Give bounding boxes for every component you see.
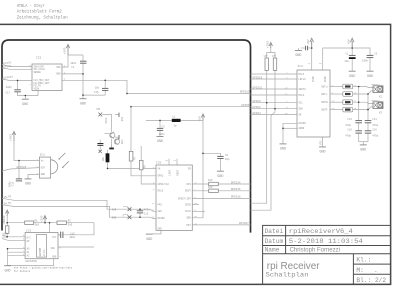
- svg-text:GPIO17: GPIO17: [239, 222, 249, 225]
- svg-text:C16: C16: [372, 128, 377, 131]
- svg-text:OUT: OUT: [41, 167, 46, 170]
- svg-text:GND: GND: [349, 75, 355, 79]
- svg-text:10p: 10p: [95, 87, 100, 90]
- svg-text:C12: C12: [12, 181, 15, 186]
- svg-text:DOUT: DOUT: [185, 190, 191, 193]
- svg-text:RCLK: RCLK: [299, 73, 305, 76]
- svg-text:GPIO26: GPIO26: [17, 166, 27, 169]
- svg-text:GND: GND: [25, 183, 31, 187]
- svg-text:.: .: [374, 267, 378, 274]
- svg-text:100n: 100n: [9, 181, 12, 188]
- svg-text:SPDIF/INT: SPDIF/INT: [178, 197, 191, 200]
- svg-text:1m: 1m: [174, 124, 178, 127]
- svg-text:LRCLK: LRCLK: [299, 78, 307, 81]
- svg-text:C11: C11: [144, 212, 149, 215]
- svg-text:24C64SN: 24C64SN: [25, 260, 37, 263]
- svg-text:100n: 100n: [69, 236, 76, 239]
- svg-text:LOUT: LOUT: [168, 169, 171, 175]
- svg-text:IC2: IC2: [36, 57, 41, 60]
- svg-text:GPIO19: GPIO19: [253, 76, 263, 79]
- svg-text:ROUT: ROUT: [176, 169, 179, 175]
- svg-text:C1: C1: [346, 53, 350, 56]
- svg-text:OUTL+: OUTL+: [321, 85, 329, 88]
- svg-text:for details: for details: [14, 270, 31, 273]
- svg-text:VDD: VDD: [56, 66, 61, 69]
- svg-text:100: 100: [208, 186, 213, 189]
- svg-text:100n: 100n: [70, 62, 77, 65]
- svg-text:Bl.: 2/2: Bl.: 2/2: [356, 277, 386, 284]
- svg-text:GPIO4: GPIO4: [253, 112, 261, 115]
- svg-text:470n: 470n: [144, 208, 151, 211]
- svg-text:470p: 470p: [345, 124, 352, 127]
- svg-text:+3V3: +3V3: [41, 215, 44, 222]
- svg-text:100n: 100n: [362, 59, 369, 62]
- svg-text:GPIO18: GPIO18: [231, 196, 241, 199]
- svg-text:MCLK: MCLK: [299, 94, 305, 97]
- svg-text:10u: 10u: [344, 60, 349, 63]
- svg-text:EEPROM: EEPROM: [39, 247, 42, 256]
- svg-text:Zeichnung, Schaltplan: Zeichnung, Schaltplan: [17, 15, 68, 21]
- svg-text:AIR: AIR: [112, 208, 117, 211]
- svg-text:IC5: IC5: [156, 161, 161, 164]
- svg-text:GND: GND: [146, 238, 152, 242]
- svg-text:C15: C15: [347, 128, 352, 131]
- svg-text:ADDR: ADDR: [299, 127, 305, 130]
- svg-text:Datei: Datei: [265, 228, 284, 235]
- svg-text:OUTR+: OUTR+: [321, 101, 329, 104]
- svg-text:GND: GND: [112, 216, 117, 219]
- svg-text:Christoph Fornezzi: Christoph Fornezzi: [290, 248, 340, 254]
- svg-text:C10: C10: [70, 232, 75, 235]
- svg-text:FM: FM: [97, 108, 101, 111]
- svg-text:+5V: +5V: [307, 39, 310, 44]
- svg-text:Datum: Datum: [265, 238, 284, 245]
- svg-text:SDA: SDA: [51, 247, 56, 250]
- svg-text:R9: R9: [144, 165, 147, 169]
- svg-text:K3: K3: [379, 111, 383, 114]
- svg-text:SCL: SCL: [299, 102, 304, 105]
- svg-text:C2: C2: [374, 53, 378, 56]
- svg-text:DFS: DFS: [186, 183, 191, 186]
- svg-text:GND: GND: [56, 73, 61, 76]
- svg-text:GND: GND: [4, 269, 10, 273]
- svg-text:GND: GND: [80, 102, 86, 106]
- svg-text:AUX: AUX: [158, 210, 163, 213]
- svg-text:10u: 10u: [102, 156, 105, 161]
- svg-text:Name: Name: [265, 247, 280, 254]
- svg-text:SDIO: SDIO: [185, 203, 191, 206]
- svg-text:+3V3: +3V3: [10, 134, 13, 141]
- svg-text:GPIO3: GPIO3: [253, 100, 261, 103]
- svg-text:Kl.:: Kl.:: [356, 257, 371, 264]
- svg-text:IC4: IC4: [298, 65, 303, 68]
- svg-text:GND: GND: [121, 139, 124, 144]
- svg-text:GND: GND: [319, 151, 325, 155]
- svg-text:TS6521S: TS6521S: [371, 99, 381, 102]
- svg-text:100n: 100n: [159, 133, 166, 136]
- svg-text:GND: GND: [217, 175, 223, 179]
- svg-text:470p: 470p: [372, 134, 379, 137]
- svg-text:C13: C13: [347, 118, 352, 121]
- svg-text:GPIO13: GPIO13: [240, 91, 250, 94]
- svg-text:C4: C4: [71, 66, 75, 69]
- svg-text:R2: R2: [68, 219, 72, 222]
- svg-text:100n: 100n: [6, 86, 13, 89]
- svg-text:AT24C: AT24C: [43, 249, 46, 257]
- svg-text:FMI: FMI: [158, 203, 163, 206]
- svg-text:GND: GND: [121, 116, 124, 121]
- svg-text:M:: M:: [356, 267, 363, 274]
- svg-text:R7: R7: [133, 156, 136, 160]
- svg-text:470p: 470p: [345, 134, 352, 137]
- svg-text:DAVDD: DAVDD: [299, 122, 307, 125]
- svg-text:5-2-2018 11:03:54: 5-2-2018 11:03:54: [289, 238, 363, 245]
- svg-text:C16: C16: [94, 91, 99, 94]
- svg-text:GND: GND: [295, 54, 301, 58]
- svg-text:C14: C14: [372, 118, 377, 121]
- svg-text:RCLK: RCLK: [158, 190, 164, 193]
- svg-text:GPIO14: GPIO14: [231, 181, 241, 184]
- svg-text:K2: K2: [379, 96, 383, 99]
- svg-text:SCLK: SCLK: [185, 210, 191, 213]
- svg-text:rpiReceiverV6_4: rpiReceiverV6_4: [289, 228, 353, 235]
- svg-text:AVDD: AVDD: [312, 76, 315, 82]
- svg-text:SENSE: SENSE: [34, 71, 42, 74]
- svg-text:GPO3/CLK: GPO3/CLK: [158, 183, 170, 186]
- svg-text:GND: GND: [22, 103, 28, 107]
- svg-text:GPIO6: GPIO6: [241, 104, 249, 107]
- svg-text:GPO1: GPO1: [158, 175, 164, 178]
- svg-text:3k9: 3k9: [68, 223, 73, 226]
- svg-text:C8: C8: [225, 154, 229, 157]
- svg-text:10p: 10p: [225, 158, 230, 161]
- svg-text:PAD1: PAD1: [105, 117, 108, 124]
- svg-text:GND: GND: [157, 140, 163, 144]
- svg-text:GND: GND: [158, 227, 163, 230]
- svg-text:SEN: SEN: [186, 217, 191, 220]
- svg-text:SDA: SDA: [299, 108, 304, 111]
- svg-text:L1: L1: [172, 116, 176, 119]
- svg-text:GND: GND: [360, 149, 366, 153]
- svg-text:R1: R1: [35, 219, 39, 222]
- svg-text:Arbeitsblatt Form2: Arbeitsblatt Form2: [17, 9, 62, 15]
- svg-text:IC3: IC3: [26, 229, 31, 232]
- svg-text:OUTR-: OUTR-: [321, 109, 329, 112]
- svg-text:SDATA: SDATA: [299, 88, 307, 91]
- svg-text:GPIO15: GPIO15: [231, 188, 241, 191]
- svg-text:OUTL-: OUTL-: [321, 93, 329, 96]
- svg-text:VSSA: VSSA: [34, 87, 40, 90]
- svg-text:10k: 10k: [2, 220, 5, 225]
- svg-text:C3: C3: [162, 126, 166, 129]
- svg-text:100: 100: [208, 179, 213, 182]
- svg-text:GND: GND: [280, 148, 286, 152]
- svg-text:VCC: VCC: [52, 236, 57, 239]
- svg-text:Schaltplan: Schaltplan: [266, 271, 309, 278]
- svg-text:+5V: +5V: [348, 39, 351, 44]
- svg-text:GND: GND: [52, 256, 57, 259]
- svg-text:rpi Receiver: rpi Receiver: [267, 261, 320, 272]
- svg-text:+3V3: +3V3: [64, 47, 67, 54]
- svg-text:+5V: +5V: [199, 116, 202, 121]
- svg-text:IC1: IC1: [40, 154, 45, 157]
- svg-text:DVDD: DVDD: [324, 76, 327, 82]
- svg-text:PAD2: PAD2: [123, 205, 129, 208]
- svg-text:RFGND: RFGND: [158, 217, 166, 220]
- svg-text:GND: GND: [41, 173, 46, 176]
- svg-text:GPIO2: GPIO2: [253, 106, 261, 109]
- svg-text:HTBLA - Steyr: HTBLA - Steyr: [17, 3, 45, 9]
- svg-text:VSS: VSS: [319, 140, 322, 145]
- svg-text:GPIO21: GPIO21: [253, 86, 263, 89]
- svg-text:+3V3: +3V3: [266, 41, 269, 48]
- svg-text:C17: C17: [6, 91, 11, 94]
- svg-text:GND: GND: [367, 75, 373, 79]
- svg-text:RST: RST: [186, 224, 191, 227]
- svg-text:470p: 470p: [372, 124, 379, 127]
- svg-text:3k9: 3k9: [35, 223, 40, 226]
- svg-text:TS6521S: TS6521S: [371, 83, 381, 86]
